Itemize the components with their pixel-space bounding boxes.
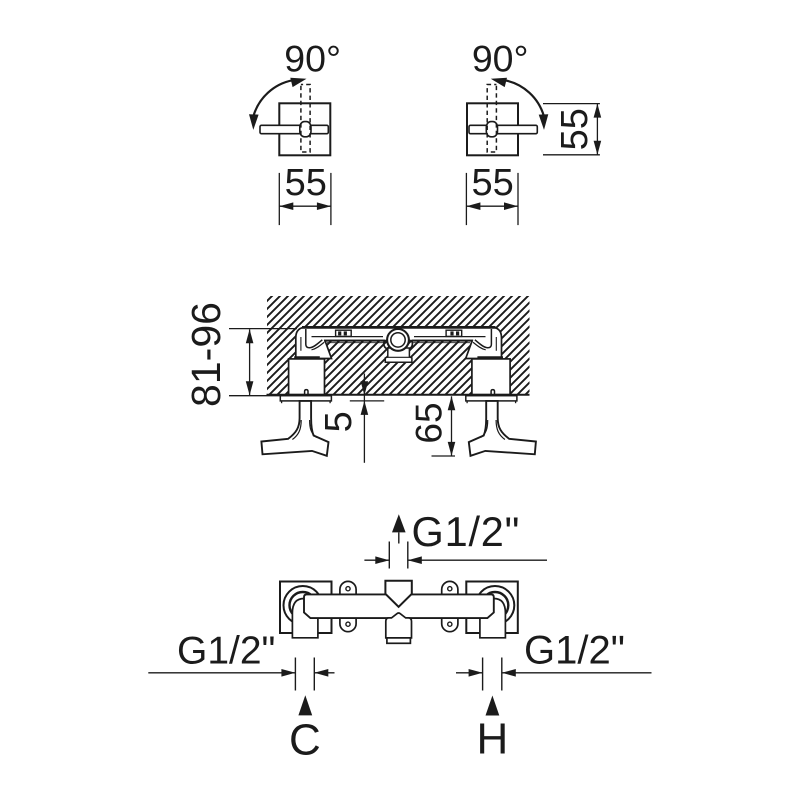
bottom view mounting ear right [442, 581, 458, 631]
svg-text:G1/2": G1/2" [177, 630, 275, 673]
dimension 65 [432, 396, 456, 456]
handle view left: 90 deg rotation arc with arrowheads [249, 78, 307, 130]
handle view left: dashed vertical lever (rotated position) [301, 85, 310, 153]
center port outer circle [387, 329, 409, 351]
ear hole left bottom [346, 622, 350, 626]
bottom view mounting ear left [340, 581, 356, 631]
dimension 81-96 [229, 329, 297, 396]
bottom view top pentagon port [385, 581, 411, 607]
bottom view main bar [304, 594, 494, 618]
dimension 55 below left handle [279, 173, 331, 225]
handle view left: square base [279, 103, 330, 155]
bottom view square left [280, 582, 332, 634]
handle view right: lever bar [469, 125, 537, 133]
block pin left [305, 390, 308, 395]
valve body inner top line [312, 336, 384, 338]
bottom view elbow right [480, 599, 506, 638]
escutcheon end ticks [282, 401, 516, 403]
svg-text:81-96: 81-96 [183, 302, 229, 407]
wall bottom surface line [267, 394, 530, 396]
body inner contour right [475, 329, 492, 348]
escutcheon plate right [466, 396, 517, 401]
body inner contour left [306, 329, 323, 348]
bottom view elbow left [292, 599, 318, 638]
tube underside double line [324, 340, 385, 342]
center bracket below port [385, 348, 412, 362]
svg-text:55: 55 [471, 162, 513, 204]
dimension 55 right side (vertical) [543, 104, 600, 155]
mounting tab right [446, 330, 462, 336]
ear hole right bottom [448, 622, 452, 626]
svg-text:C: C [289, 716, 321, 765]
center port wings [384, 341, 388, 349]
dimension 5 [350, 374, 384, 463]
svg-text:G1/2": G1/2" [524, 629, 625, 673]
svg-text:H: H [477, 715, 509, 764]
bottom view square right [466, 582, 518, 634]
valve block left [289, 359, 325, 395]
right G1/2 dimension [456, 658, 652, 691]
svg-text:90°: 90° [284, 38, 341, 80]
handle view right: square base [467, 103, 518, 155]
left G1/2 dimension [148, 658, 334, 691]
handle view left: lever hub [300, 122, 311, 137]
top G1/2 dimension [364, 532, 547, 568]
handle view left: lever bar [260, 125, 328, 133]
valve block right [472, 359, 510, 395]
svg-text:G1/2": G1/2" [412, 508, 521, 555]
block joint bands [294, 356, 320, 359]
escutcheon plate left [280, 396, 331, 401]
dimension 55 below right handle [466, 173, 518, 225]
svg-text:55: 55 [554, 108, 596, 150]
bottom view outlet lip [387, 638, 411, 643]
mounting tab left [336, 330, 352, 336]
valve body top edge (thick) [302, 326, 496, 329]
svg-text:55: 55 [285, 162, 327, 204]
svg-text:5: 5 [318, 411, 360, 432]
svg-text:90°: 90° [472, 38, 529, 80]
bottom view circle left [284, 586, 323, 625]
svg-text:65: 65 [408, 402, 449, 443]
ear hole right top [448, 587, 452, 591]
bottom view outlet with chevron [386, 613, 412, 638]
block pin right [491, 390, 494, 395]
lever handle left (section) [261, 401, 328, 456]
valve body silhouette (white over hatch) [296, 327, 502, 358]
wall section hatching [267, 296, 530, 395]
handle view right: 90 deg rotation arc [491, 78, 549, 130]
handle view right: dashed vertical lever [487, 85, 496, 153]
bottom view circle right [476, 586, 515, 625]
handle view right: mirrored geometry group [467, 78, 548, 156]
ear hole left top [346, 587, 350, 591]
lever handle right (section, mirrored) [469, 401, 536, 456]
center port inner circle [391, 333, 405, 347]
handle view right: lever hub [486, 122, 497, 137]
